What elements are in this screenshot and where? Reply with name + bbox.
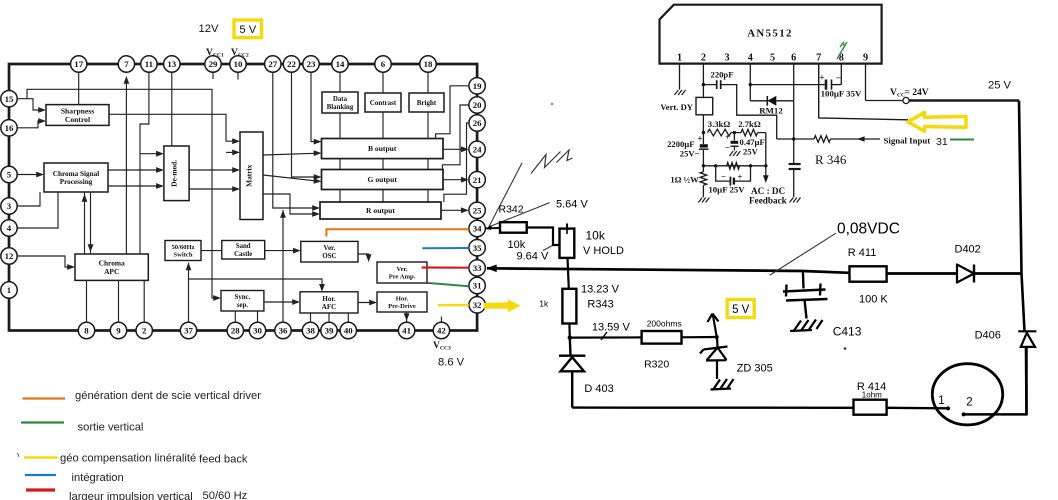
wire pin26 to R output top: [444, 123, 469, 202]
wire stub pin10 Vcc2: [237, 72, 239, 79]
wire Ver OSC to Ver Pre Amp: [358, 254, 372, 262]
IC pin 26: [469, 115, 485, 131]
svg-text:10µF 25V: 10µF 25V: [708, 185, 745, 195]
node yoke pin 2: [962, 412, 966, 416]
wire pin23 to B output: [311, 72, 322, 144]
wire pin27 to R output: [273, 72, 320, 211]
diode D406: [1018, 331, 1036, 347]
wire G output to pin21: [443, 177, 469, 183]
wire branch into Matrix: [226, 150, 240, 156]
box Ver. OSC: [301, 241, 358, 262]
svg-text:Sync.: Sync.: [235, 294, 251, 301]
svg-text:Ver.: Ver.: [396, 266, 407, 273]
wire pin30 to Sync sep: [257, 311, 259, 322]
box Sharpness Control: [46, 105, 109, 126]
IC pin 40: [340, 322, 356, 338]
diode RM12: [750, 96, 793, 116]
IC pin 42: [433, 322, 449, 338]
svg-text:0.47µF: 0.47µF: [740, 137, 765, 147]
node junction 10uF left: [714, 164, 717, 167]
wire pin20 to G output top: [442, 105, 468, 170]
node junction R343/D403: [568, 335, 572, 339]
node junction 10uF right: [749, 164, 752, 167]
svg-text:Pre Amp.: Pre Amp.: [389, 274, 416, 281]
svg-text:2200µF: 2200µF: [667, 139, 694, 149]
IC pin 35: [469, 240, 485, 256]
ground below pin6 capacitor: [790, 198, 801, 203]
IC pin 31: [469, 277, 485, 293]
IC pin 3: [1, 198, 17, 214]
wire CSP to De-mod B: [108, 183, 164, 189]
svg-text:40: 40: [344, 326, 353, 336]
wire AN5512 pin4 down: [749, 64, 751, 101]
svg-text:intégration: intégration: [72, 472, 124, 484]
svg-text:R343: R343: [587, 299, 613, 311]
svg-text:Sharpness: Sharpness: [61, 106, 94, 115]
wire branch to Hor AFC: [189, 279, 325, 292]
box Data Blanking: [322, 92, 358, 113]
IC pin 21: [469, 172, 485, 188]
node A junction: [733, 131, 736, 134]
svg-text:5 V: 5 V: [732, 304, 750, 316]
IC pin 19: [469, 78, 485, 94]
wire Matrix to G output: [263, 175, 322, 184]
label Vcc3 below pin 42: [433, 341, 451, 352]
svg-text:31: 31: [936, 136, 948, 148]
legend yellow line: [24, 456, 58, 459]
svg-text:19: 19: [473, 81, 482, 91]
wire pin12 to Chroma APC: [17, 256, 75, 270]
wire pin13 to De-mod: [171, 72, 173, 146]
highlight box 5V supply: [234, 20, 262, 38]
diode D403: [559, 338, 585, 408]
wire R320 to ZD305: [682, 336, 717, 338]
wire AN5512 pin9 to Vcc terminal: [865, 64, 867, 101]
IC pin 17: [71, 56, 87, 72]
node Vcc=24V open terminal: [903, 97, 909, 103]
IC pin 13: [164, 56, 180, 72]
zener diode ZD305 (hand drawn): [700, 337, 728, 379]
box Ver. Pre Amp.: [377, 262, 427, 283]
node junction left: [702, 164, 705, 167]
wire APC to pin8: [86, 280, 88, 322]
wire pin18 to Bright: [427, 72, 429, 202]
svg-text:9: 9: [116, 326, 121, 336]
svg-text:1ohm: 1ohm: [862, 391, 882, 400]
svg-text:4: 4: [748, 53, 753, 64]
svg-text:Vert. DY: Vert. DY: [660, 102, 693, 112]
svg-text:30: 30: [253, 326, 262, 336]
wire green vertical output to pin 31: [427, 283, 469, 286]
svg-text:ZD 305: ZD 305: [737, 363, 773, 375]
resistor R342 10k (box): [500, 222, 527, 233]
label Vcc = 24V: [890, 88, 929, 99]
svg-text:R342: R342: [499, 204, 524, 216]
svg-text:Feedback: Feedback: [749, 196, 788, 206]
node pin34 junction: [488, 226, 492, 230]
pointer line 5.64V: [490, 203, 550, 227]
block Vert. DY: [660, 97, 712, 114]
IC pin 2: [136, 322, 152, 338]
legend blue line: [25, 474, 56, 476]
svg-text:génération dent de scie vertic: génération dent de scie vertical driver: [75, 390, 261, 402]
IC pin 37: [180, 322, 196, 338]
wire red vertical pulse width to pin 33: [422, 266, 469, 268]
wire CSP-APC A: [82, 192, 88, 254]
IC pin 23: [303, 56, 319, 72]
svg-text:33: 33: [473, 263, 482, 273]
IC pin 8: [78, 322, 94, 338]
box Contrast: [365, 93, 401, 112]
capacitor 2200uF 25V: [667, 133, 708, 166]
wire feedback bottom rail: [703, 165, 765, 167]
svg-text:3.3kΩ: 3.3kΩ: [708, 119, 731, 129]
node signal junction on pin6 line: [792, 137, 795, 140]
diode D402: [957, 265, 974, 283]
wire Matrix to B output: [263, 150, 322, 156]
wire R414 to yoke pin 1: [887, 407, 947, 410]
svg-text:Hor.: Hor.: [322, 295, 335, 303]
svg-text:24: 24: [473, 145, 482, 155]
svg-text:C413: C413: [833, 325, 862, 339]
wire R output to pin25: [441, 207, 469, 213]
svg-text:37: 37: [184, 326, 193, 336]
svg-text:34: 34: [473, 224, 482, 234]
svg-text:−: −: [836, 74, 841, 84]
node pin2 junction: [702, 83, 705, 86]
svg-text:32: 32: [473, 300, 482, 310]
capacitor 0.47uF 25V: [725, 132, 765, 157]
wire R342 to V HOLD pot: [527, 228, 560, 246]
svg-text:7: 7: [124, 59, 129, 69]
box 50/60Hz Switch: [165, 241, 201, 261]
svg-text:8: 8: [84, 326, 89, 336]
svg-text:7: 7: [816, 53, 821, 64]
svg-text:9.64 V: 9.64 V: [517, 251, 549, 263]
wire feedback line to Sync sep: [27, 89, 221, 301]
wire stub pin42: [440, 317, 442, 323]
ground below 0.47uF: [729, 151, 740, 156]
svg-text:1: 1: [7, 285, 11, 295]
svg-text:18: 18: [424, 59, 433, 69]
node yoke pin 1: [946, 406, 950, 410]
capacitor C413 (hand drawn): [783, 271, 828, 319]
svg-text:3: 3: [7, 201, 12, 211]
svg-text:100µF 35V: 100µF 35V: [821, 89, 862, 99]
box Matrix: [240, 132, 263, 220]
box G output: [322, 170, 444, 190]
wire AN5512 pin6 down: [793, 64, 795, 164]
wire pin22 to G output: [292, 72, 322, 180]
resistor 2.7kOhm: [731, 119, 766, 136]
label Vcc1: [206, 48, 224, 59]
wire De-mod to Matrix B: [189, 186, 240, 192]
svg-text:16: 16: [5, 123, 14, 133]
wire pin36 up: [280, 210, 286, 322]
svg-text:APC: APC: [104, 267, 119, 276]
IC pin 7: [118, 56, 134, 72]
svg-text:50/60Hz: 50/60Hz: [171, 244, 194, 251]
main thick wire from pin 33: [486, 265, 1021, 274]
svg-text:Pre-Drive: Pre-Drive: [388, 303, 416, 310]
IC pin 6: [375, 56, 391, 72]
wire Sync sep to Hor AFC: [264, 299, 300, 305]
svg-text:12V: 12V: [199, 23, 219, 35]
svg-text:22: 22: [287, 59, 296, 69]
IC pin 41: [398, 322, 414, 338]
svg-text:8.6 V: 8.6 V: [438, 357, 465, 369]
svg-text:+: +: [697, 135, 702, 145]
svg-text:15: 15: [5, 94, 14, 104]
svg-text:5: 5: [7, 170, 12, 180]
wire pin40 to Hor AFC: [347, 313, 349, 322]
highlight box 5 V at ZD305: [727, 300, 754, 318]
svg-text:+: +: [738, 172, 743, 182]
svg-text:= 24V: = 24V: [905, 88, 929, 98]
svg-text:−: −: [721, 172, 726, 182]
resistor 3.3kOhm: [708, 119, 732, 136]
svg-text:25V−: 25V−: [680, 149, 700, 159]
resistor R320 200ohms (box): [642, 331, 682, 344]
svg-text:Data: Data: [333, 96, 348, 103]
wire AN5512 pin8 down: [840, 64, 842, 85]
wire pin7 from Chroma APC: [124, 76, 130, 254]
svg-text:D402: D402: [955, 244, 981, 256]
svg-text:12: 12: [5, 251, 14, 261]
ground below ZD305 (hand drawn): [711, 379, 734, 390]
svg-text:V: V: [890, 88, 897, 98]
svg-text:−: −: [725, 143, 730, 153]
svg-text:Ver.: Ver.: [324, 244, 336, 252]
svg-text:26: 26: [473, 118, 482, 128]
svg-text:B output: B output: [368, 144, 397, 153]
svg-text:V: V: [433, 341, 440, 351]
IC pin 39: [321, 322, 337, 338]
wire pin15 to Sharpness input: [17, 99, 46, 113]
svg-text:largeur impulsion vertical: largeur impulsion vertical: [69, 491, 193, 500]
wire APC to pin2: [143, 280, 145, 322]
IC pin 12: [1, 248, 17, 264]
resistor R346 on signal input line: [777, 136, 880, 143]
svg-text:CC3: CC3: [440, 346, 451, 352]
svg-text:1: 1: [677, 53, 682, 64]
wire AN5512 pin2 down: [702, 64, 704, 98]
svg-text:CC2: CC2: [238, 53, 249, 59]
wire AN5512 pin7 to signal arrow: [819, 64, 908, 120]
wire pin28 to Sync sep: [234, 311, 236, 322]
IC pin 38: [302, 322, 318, 338]
wire pin4 to CSP: [17, 192, 58, 228]
IC pin 29: [205, 56, 221, 72]
wire pin17 to Sharpness: [78, 72, 80, 104]
ground below C413 (hand drawn): [790, 320, 823, 332]
IC pin 24: [469, 141, 485, 157]
svg-text:2: 2: [701, 53, 706, 64]
svg-text:AC : DC: AC : DC: [751, 186, 785, 196]
svg-text:Contrast: Contrast: [370, 99, 397, 107]
svg-text:3: 3: [724, 53, 729, 64]
IC pin 11: [141, 56, 157, 72]
IC pin 25: [469, 202, 485, 218]
svg-text:OSC: OSC: [322, 252, 336, 260]
wire Hor AFC to Hor Pre-Drive: [358, 300, 377, 306]
svg-text:42: 42: [437, 326, 446, 336]
svg-text:23: 23: [307, 59, 316, 69]
ground below 1 Ohm: [698, 198, 709, 203]
svg-text:25: 25: [473, 206, 482, 216]
svg-text:+: +: [725, 132, 730, 142]
stray orange speck: [551, 103, 553, 105]
svg-text:V: V: [231, 48, 238, 58]
wire pin3 to CSP: [17, 192, 40, 206]
wire yoke pin2 to D406: [964, 347, 1027, 414]
label Vcc2: [231, 48, 249, 59]
svg-text:Signal Input: Signal Input: [884, 136, 931, 146]
svg-text:220pF: 220pF: [711, 70, 734, 80]
capacitor 220pF: [703, 70, 733, 90]
svg-text:2: 2: [142, 326, 147, 336]
svg-text:50/60 Hz: 50/60 Hz: [203, 490, 248, 500]
wire 50/60 to Sand Castle: [201, 250, 222, 252]
svg-text:41: 41: [402, 326, 411, 336]
box Sync. sep.: [221, 291, 264, 312]
svg-text:5 V: 5 V: [239, 24, 256, 36]
green mark under 31: [950, 139, 974, 141]
svg-text:Hor.: Hor.: [396, 295, 409, 302]
svg-text:10k: 10k: [586, 229, 606, 243]
svg-text:1k: 1k: [539, 300, 549, 309]
box B output: [322, 139, 444, 159]
svg-text:R 411: R 411: [848, 247, 877, 259]
box R output: [320, 202, 441, 219]
label AC : DC Feedback: [749, 186, 788, 206]
svg-text:11: 11: [145, 59, 153, 69]
wire pin14 to Data Blanking: [339, 72, 341, 202]
svg-text:5: 5: [770, 53, 775, 64]
svg-text:Sand: Sand: [236, 243, 251, 250]
IC pin 14: [332, 56, 348, 72]
IC pin 20: [469, 97, 485, 113]
capacitor on pin6 line: [789, 164, 801, 197]
svg-text:R 346: R 346: [815, 152, 847, 167]
svg-text:13.59 V: 13.59 V: [592, 322, 631, 334]
wire pin5 to CSP: [17, 172, 44, 178]
box De-mod (demodulator): [164, 146, 189, 201]
wire pin11 to Chroma APC: [140, 72, 149, 254]
capacitor 100uF 35V: [750, 74, 862, 99]
wire pin39 to Hor AFC: [328, 313, 330, 322]
IC pin 1: [1, 282, 17, 298]
legend green line: [21, 421, 64, 423]
wire orange sawtooth generation to pin 34: [326, 229, 468, 236]
wire Sharpness out to Matrix: [109, 114, 240, 144]
sawtooth waveform sketch: [531, 150, 573, 174]
svg-text:AFC: AFC: [322, 303, 336, 311]
svg-text:10k: 10k: [508, 239, 526, 251]
wire junction to R320: [570, 332, 642, 340]
svg-text:géo compensation linéralité: géo compensation linéralité: [60, 453, 196, 465]
svg-text:sortie vertical: sortie vertical: [78, 422, 144, 434]
svg-text:2.7kΩ: 2.7kΩ: [738, 119, 761, 129]
IC pin 10: [230, 56, 246, 72]
potentiometer 10k V HOLD: [560, 224, 575, 258]
svg-text:100 K: 100 K: [859, 294, 888, 306]
svg-text:RM12: RM12: [759, 106, 783, 116]
resistor feedback (unlabelled): [727, 163, 740, 170]
svg-text:36: 36: [279, 326, 288, 336]
box Chroma APC: [75, 254, 148, 280]
legend orange line: [23, 397, 66, 399]
svg-text:Blanking: Blanking: [327, 104, 354, 111]
box Chroma Signal Processing: [44, 163, 108, 192]
IC pin 34: [469, 220, 485, 236]
svg-text:1: 1: [938, 395, 944, 407]
legend red line: [26, 488, 55, 491]
svg-text:28: 28: [231, 326, 240, 336]
wire B output to pin24: [443, 146, 469, 152]
pointer line 0,08VDC: [770, 233, 836, 275]
node pin4 junction: [749, 83, 752, 86]
IC pin 30: [249, 322, 265, 338]
svg-text:0,08VDC: 0,08VDC: [837, 221, 900, 238]
svg-text:20: 20: [473, 100, 482, 110]
IC pin 15: [1, 91, 17, 107]
svg-text:CC1: CC1: [213, 53, 224, 59]
capacitor 10uF 25V loop: [708, 166, 750, 195]
svg-text:38: 38: [306, 326, 315, 336]
wire CSP-APC B: [88, 192, 94, 254]
IC pin 4: [1, 220, 17, 236]
svg-text:+: +: [819, 74, 824, 84]
IC pin 36: [275, 322, 291, 338]
wire APC to pin9: [118, 280, 120, 322]
pointer line sawtooth to pin 34: [489, 163, 523, 228]
wire Matrix to R output: [263, 194, 320, 217]
wire Sand Castle to Ver OSC: [265, 248, 301, 254]
wire pot bottom through main rail to R343: [568, 258, 569, 289]
svg-text:5.64 V: 5.64 V: [556, 199, 588, 211]
wire pin41 to Hor Pre-Drive: [404, 312, 410, 322]
svg-text:6: 6: [791, 53, 796, 64]
IC pin 32: [469, 297, 485, 313]
wire blue integration to pin 35: [422, 247, 469, 249]
resistor R343 1k (box): [562, 289, 576, 324]
svg-text:9: 9: [863, 53, 868, 64]
svg-text:G output: G output: [368, 175, 398, 184]
svg-text:V HOLD: V HOLD: [583, 245, 624, 257]
resistor R414 1ohm (box): [854, 400, 887, 415]
svg-text:2: 2: [966, 397, 972, 409]
svg-text:200ohms: 200ohms: [647, 319, 682, 329]
wire into De-mod: [140, 151, 164, 157]
green pen mark at pin 8: [837, 42, 847, 59]
wire pin19 to B output top: [436, 86, 469, 139]
svg-text:10: 10: [234, 59, 243, 69]
stray pen dot: [844, 347, 847, 350]
svg-text:Switch: Switch: [173, 252, 192, 259]
yellow highlighter arrow pointing left at pin7 wire: [908, 113, 966, 132]
svg-text:35: 35: [473, 243, 482, 253]
arrow (wiper) above ZD305: [708, 314, 719, 338]
wire node B down with feedback arrow: [763, 133, 769, 183]
box Hor. Pre-Drive: [377, 292, 427, 312]
wire pin37 to 50/60 switch: [186, 263, 192, 323]
svg-text:Control: Control: [65, 115, 90, 124]
IC pin 18: [420, 56, 436, 72]
IC pin 9: [110, 322, 126, 338]
svg-text:feed back: feed back: [199, 454, 248, 466]
IC pin 5: [1, 166, 17, 182]
